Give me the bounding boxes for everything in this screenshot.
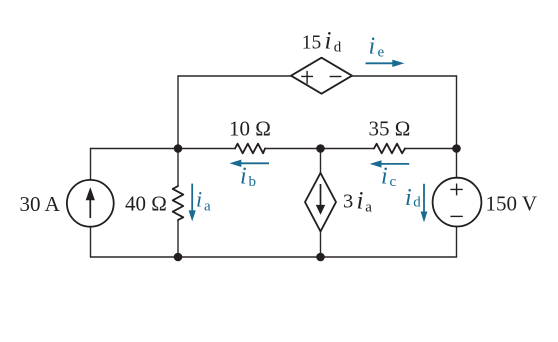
node dot at A (178,148.5) [174,144,183,153]
label id [405,185,421,211]
label 15id [302,28,342,56]
dependent current source diamond 3ia [305,173,336,232]
wire 3ia branch upper [320,149,322,174]
dependent voltage source diamond 15id [291,58,352,94]
resistor R3 35ohm zigzag [374,144,405,154]
arrow inside 30A source [86,187,95,218]
svg-text:i: i [381,164,388,190]
voltage source V1 150V circle [433,178,482,227]
label ib [240,164,256,191]
svg-text:15: 15 [302,33,322,54]
wire left riser node A to top rail [177,76,179,149]
current arrow id (blue, downward) [421,184,428,223]
svg-text:e: e [378,45,385,61]
svg-text:b: b [249,174,257,190]
svg-text:150 V: 150 V [486,191,538,215]
label ic [381,164,397,191]
svg-text:i: i [369,34,376,60]
wire left branch lower [90,227,92,257]
current arrow ib (blue, leftward) [230,160,270,167]
svg-text:35 Ω: 35 Ω [369,117,411,141]
wire top rail left segment [178,75,291,77]
plus sign inside 15id diamond [301,71,313,84]
svg-text:i: i [240,164,247,190]
svg-text:40 Ω: 40 Ω [125,192,167,216]
node dot bottom under 3ia (320.5,257) [316,253,325,262]
svg-text:3: 3 [343,191,353,213]
wire middle rail center [265,148,374,150]
minus sign inside 15id diamond [330,76,342,78]
wire 3ia branch lower [320,232,322,258]
svg-text:30 A: 30 A [20,192,61,216]
svg-text:a: a [365,200,372,216]
wire middle rail left [91,148,236,150]
label ie [369,34,385,61]
current arrow ie (blue, rightward) [366,60,405,67]
node dot bottom under 40ohm (178,257) [174,253,183,262]
resistor R2 10ohm zigzag [235,144,265,154]
wire bottom rail [91,256,457,258]
label 3ia [343,188,372,216]
wire 40ohm branch upper [177,149,179,187]
svg-text:i: i [325,28,332,55]
wire 40ohm branch lower [177,220,179,257]
svg-text:i: i [196,187,202,212]
wire 150V branch upper [456,149,458,178]
current source I1 30A circle [67,180,114,227]
node dot at C (456.5,148.5) [452,144,461,153]
wire 150V branch lower [456,227,458,257]
resistor R1 40ohm zigzag [173,186,184,220]
svg-text:i: i [357,188,364,215]
svg-text:10 Ω: 10 Ω [229,117,271,141]
wire right riser top rail to node C [456,76,458,149]
wire left branch upper [90,149,92,181]
svg-text:c: c [390,174,397,190]
svg-text:a: a [204,199,211,215]
label ia [196,187,211,215]
svg-text:d: d [334,40,342,56]
node dot at B (320.5,148.5) [316,144,325,153]
svg-text:i: i [405,185,412,211]
wire top rail right segment [352,75,457,77]
current arrow ia (blue, downward) [189,184,196,222]
plus sign inside 150V source [450,184,462,196]
minus sign inside 150V source [450,215,462,217]
current arrow ic (blue, leftward) [370,160,410,167]
arrow inside 3ia diamond [316,184,325,215]
svg-text:d: d [413,195,421,211]
wire middle rail right [405,148,457,150]
